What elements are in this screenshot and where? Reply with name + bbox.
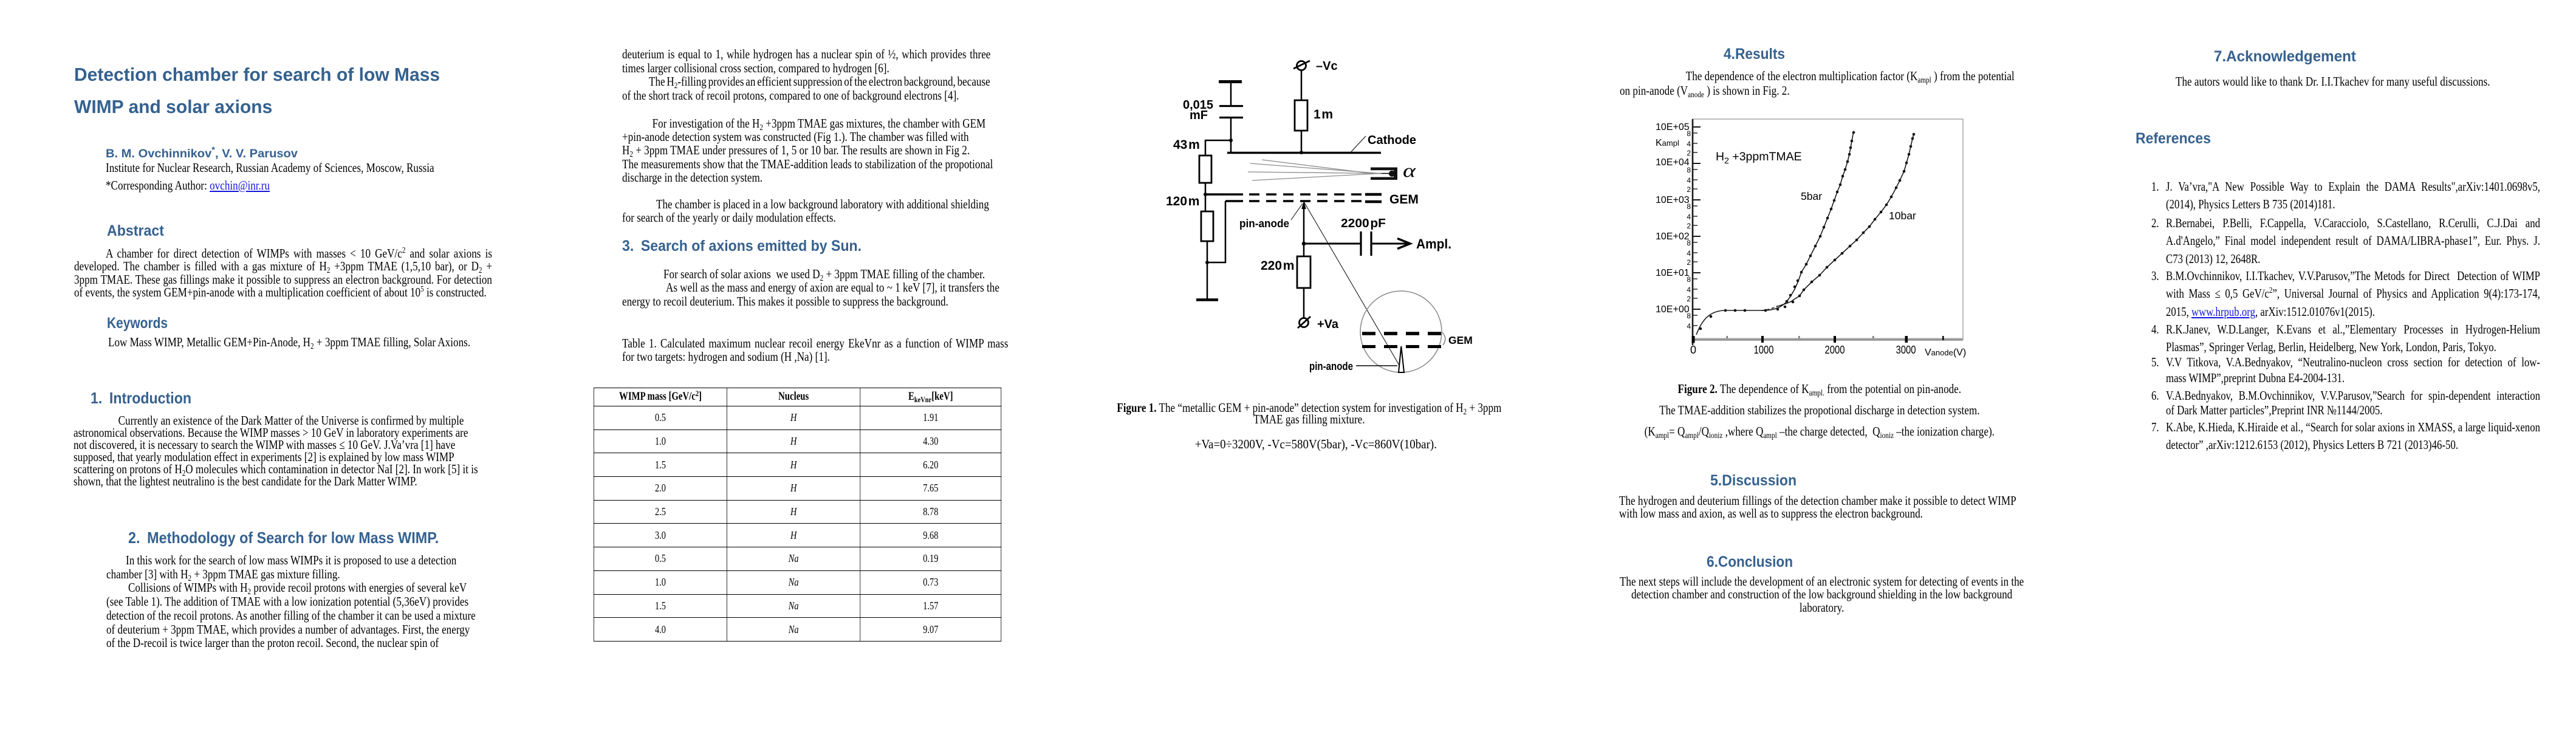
fig1 captions [1112,402,1507,425]
svg-text:10E+03: 10E+03 [1656,195,1690,205]
svg-text:1000: 1000 [1754,344,1774,356]
magnified pin-anode label [1309,360,1397,372]
svg-text:2: 2 [1687,185,1691,194]
svg-text:1 m: 1 m [1314,108,1333,122]
x labels [1690,344,1916,356]
capacitor 2200 pF [1341,217,1386,256]
wire capacitor to node A [1230,117,1232,140]
wire R 1m to cathode [1301,131,1303,152]
magnifier circle [1360,291,1442,372]
wire -Vc to R 1m [1301,70,1303,100]
5bar curve [1696,131,1854,335]
svg-text:10E+01: 10E+01 [1656,268,1690,278]
svg-text:pin-anode: pin-anode [1309,360,1353,372]
svg-text:H2 +3ppmTMAE: H2 +3ppmTMAE [1716,150,1802,165]
resistor 220m [1261,256,1310,288]
svg-text:4: 4 [1687,286,1691,294]
svg-text:8: 8 [1687,275,1691,284]
wire node A to R 43m [1205,140,1231,156]
wire junction to R 220m [1303,244,1305,256]
magnifier callout lines from pin tip [1304,202,1399,365]
svg-text:3000: 3000 [1896,344,1916,356]
svg-text:4: 4 [1687,176,1691,185]
y axis [1692,119,1694,345]
wire R 120m bottom to ground node [1207,241,1208,262]
capacitor 0,015 mF [1183,81,1243,122]
wire R 220m to +Va [1303,288,1305,318]
svg-text:10E+04: 10E+04 [1656,157,1690,168]
svg-text:8: 8 [1687,239,1691,247]
x axis band [1693,338,1963,338]
node A junction [1229,139,1233,142]
y major ticks + labels [1693,127,1701,309]
wire to ground [1207,262,1208,299]
svg-text:2: 2 [1687,222,1691,230]
svg-text:α: α [1403,160,1416,181]
wire R 43m to GEM top node [1205,183,1207,194]
svg-text:pin-anode: pin-anode [1239,217,1289,230]
svg-text:5bar: 5bar [1801,190,1822,202]
svg-text:mF: mF [1190,109,1208,122]
pin-anode wire with arrow [1301,201,1306,244]
resistor 120m [1166,194,1213,241]
wire to amplifier with arrow [1371,236,1451,252]
svg-text:–Vc: –Vc [1316,60,1338,73]
magnified GEM top electrode [1362,332,1442,335]
junction on cathode [1300,151,1303,154]
svg-text:120 m: 120 m [1166,194,1199,208]
svg-text:8: 8 [1687,312,1691,320]
x ticks [1692,336,1944,343]
wire node A to cathode [1230,140,1232,154]
svg-text:2: 2 [1687,258,1691,267]
5bar points [1699,131,1855,330]
svg-text:GEM: GEM [1448,334,1473,346]
10bar curve [1761,306,1778,311]
ground [1196,298,1218,301]
svg-text:8: 8 [1687,202,1691,211]
Table 1 [594,388,1001,642]
svg-text:10E+02: 10E+02 [1656,231,1690,242]
svg-text:43 m: 43 m [1173,138,1200,152]
magnified GEM bottom electrode [1362,345,1442,348]
svg-text:10bar: 10bar [1889,210,1916,222]
GEM top electrode [1205,193,1362,196]
y minor labels [1687,129,1691,330]
pin-anode output junction [1302,242,1306,246]
svg-text:4: 4 [1687,140,1691,148]
svg-text:8: 8 [1687,166,1691,174]
wire R 120m top [1205,194,1207,211]
magnified GEM label [1442,332,1473,346]
svg-text:10E+05: 10E+05 [1656,122,1690,132]
svg-text:2200 pF: 2200 pF [1341,217,1386,230]
terminal -Vc [1293,60,1338,73]
svg-text:Cathode: Cathode [1368,134,1416,147]
plot frame [1693,119,1963,340]
alpha particle tracks [1248,160,1382,180]
svg-text:0: 0 [1690,344,1696,356]
alpha source [1371,160,1416,181]
svg-text:8: 8 [1687,129,1691,138]
y minor ticks [1693,133,1697,326]
svg-text:10E+00: 10E+00 [1656,304,1690,315]
GEM symbol bars and label [1365,193,1419,207]
GEM bottom electrode [1225,200,1362,202]
svg-text:2000: 2000 [1825,344,1845,356]
svg-text:+Va: +Va [1317,318,1339,331]
svg-text:Vanode(V): Vanode(V) [1925,347,1966,358]
svg-text:Ampl.: Ampl. [1416,236,1451,252]
terminal +Va [1298,317,1339,331]
svg-text:4: 4 [1687,322,1691,330]
wire junction to capacitor 2200pF [1304,243,1361,245]
svg-text:4: 4 [1687,213,1691,221]
10bar points [1784,133,1916,309]
svg-text:220 m: 220 m [1261,259,1294,273]
GEM top junction [1204,193,1207,196]
svg-text:Kampl: Kampl [1656,138,1679,148]
resistor 1m [1295,100,1333,131]
svg-text:GEM: GEM [1389,193,1419,207]
svg-text:2: 2 [1687,295,1691,303]
svg-text:4: 4 [1687,249,1691,258]
cathode plate [1227,134,1416,153]
ground node junction [1205,261,1209,264]
magnified pin-anode spike [1399,346,1404,372]
resistor 43m [1173,138,1211,183]
wire GEM bottom to ground node [1207,201,1225,262]
svg-text:2: 2 [1687,149,1691,157]
pin-anode label [1239,204,1303,230]
